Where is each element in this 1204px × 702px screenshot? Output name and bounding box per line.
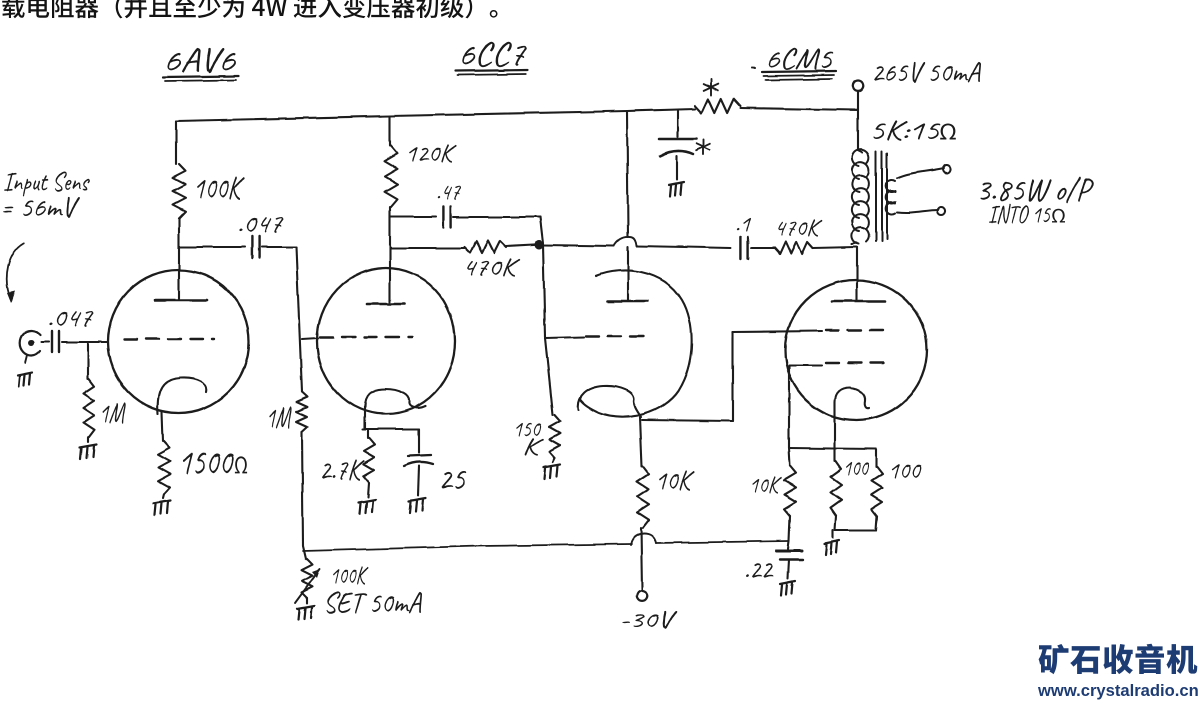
svg-text:www.crystalradio.cn: www.crystalradio.cn [1037, 681, 1199, 700]
